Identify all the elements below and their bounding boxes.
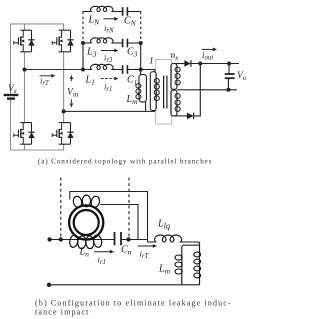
wire: right branch bus (dashed = more branches) <box>140 12 142 44</box>
svg-text:irT: irT <box>140 249 150 260</box>
svg-text:ir3: ir3 <box>104 53 113 64</box>
dashed flux line left <box>60 178 62 238</box>
node: input terminal top <box>47 237 51 241</box>
wire: bottom return (tank bottom) <box>64 110 155 112</box>
current arrow irN <box>104 18 116 20</box>
wire: top winding inner return <box>100 205 138 240</box>
current arrow ir1 <box>101 78 114 80</box>
transistor Q3 (bottom-left MOSFET with body diode) <box>20 122 31 124</box>
toroidal core (transformer core ring) <box>69 205 103 239</box>
transistor Q4 (bottom-right MOSFET with body diode) <box>59 122 71 124</box>
svg-text:Cn: Cn <box>121 245 132 257</box>
node: dashed flux line terminal <box>59 237 63 241</box>
current arrow irT (fig b) <box>138 245 155 247</box>
svg-text:L1: L1 <box>85 75 95 87</box>
node: input terminal bottom <box>47 283 51 287</box>
svg-text:irN: irN <box>104 23 114 34</box>
wire: tank top to primary <box>141 70 155 72</box>
svg-text:Vo: Vo <box>237 71 247 82</box>
wire: top winding outer loop <box>70 192 148 243</box>
svg-text:irT: irT <box>40 76 50 87</box>
output capacitor <box>228 64 230 74</box>
node: branch bus tap for L1 <box>81 68 85 72</box>
inductor L1 (branch 1) <box>90 69 92 71</box>
wire: input to toroid winding <box>50 239 115 241</box>
svg-text:ir1: ir1 <box>98 255 106 266</box>
wire: right side down <box>199 242 201 285</box>
transformer gray outline box <box>156 60 172 125</box>
transformer secondary top winding <box>171 64 177 90</box>
current label irT with vector arrow <box>40 75 53 77</box>
transformer secondary bottom winding <box>171 90 177 116</box>
node: Cn / flux line junction <box>126 237 130 241</box>
voltage label Vin with up/down arrows <box>70 77 72 81</box>
svg-text:iout: iout <box>202 50 214 61</box>
node: right bus C3 junction <box>139 41 143 45</box>
wire: left branch bus (dashed = more branches) <box>82 12 84 44</box>
leakage inductor Llq <box>148 241 155 243</box>
svg-text:Llq: Llq <box>157 219 170 231</box>
inductor L3 (branch 3) <box>83 42 91 44</box>
transistor Q2 (top-right MOSFET with body diode) <box>59 29 71 31</box>
transistor Q1 (top-left MOSFET with body diode) <box>20 29 31 31</box>
svg-text:ir1: ir1 <box>104 82 112 93</box>
svg-text:L3: L3 <box>86 47 97 59</box>
wire: center tap to output bottom <box>177 89 237 91</box>
wire: left bridge leg <box>24 24 26 30</box>
toroid bottom winding Ln <box>69 234 79 248</box>
node: branch bus tap for L3 <box>81 41 85 45</box>
svg-text:Lm: Lm <box>158 264 171 276</box>
node: output cap bottom <box>226 88 230 92</box>
wire: top secondary to diode D1 <box>174 63 184 65</box>
svg-text:LN: LN <box>88 15 101 27</box>
svg-text:nx: nx <box>171 51 180 62</box>
wire: output top rail <box>191 63 239 65</box>
full-bridge inverter outer frame: left rail wire <box>11 24 64 94</box>
battery Vs <box>4 94 19 96</box>
current arrow ir3 <box>101 50 116 52</box>
wire: bottom secondary to diode D2 <box>174 115 187 117</box>
node: diode outputs join <box>198 62 202 66</box>
magnetizing inductor Lm (fig b solenoid) <box>182 245 200 285</box>
svg-text:Vs: Vs <box>8 84 17 95</box>
svg-text:Ln: Ln <box>79 247 90 259</box>
transformer core bars <box>163 76 165 109</box>
capacitor Cn <box>114 232 116 245</box>
wire: left rail below battery to bottom rail <box>11 100 64 151</box>
svg-text:(b) Configuration to eliminate: (b) Configuration to eliminate leakage i… <box>35 299 232 308</box>
wire: D2 output rising to top rail <box>194 64 201 116</box>
svg-text:Vin: Vin <box>67 88 79 99</box>
magnetizing inductance Lm <box>140 70 142 76</box>
node: right leg to bottom return <box>62 109 66 113</box>
dashed flux line right <box>128 178 130 238</box>
svg-text:(a) Considered topology with p: (a) Considered topology with parallel br… <box>38 158 212 166</box>
node: output cap top <box>227 62 231 66</box>
transformer primary winding (1 turn side) <box>150 72 156 111</box>
svg-text:tance impact: tance impact <box>35 308 89 317</box>
current arrow ir1 (fig b) <box>94 251 111 253</box>
rectifier diode D1 <box>184 60 191 67</box>
svg-text:1: 1 <box>149 57 154 67</box>
rectifier diode D2 <box>187 113 194 120</box>
toroid top winding (shorted auxiliary) <box>72 195 83 208</box>
wire: bridge mid output (tank top) <box>25 69 92 71</box>
svg-text:C3: C3 <box>127 47 138 59</box>
wire: bottom return fig b <box>49 284 200 286</box>
node: right bus C1 junction <box>139 68 143 72</box>
current arrow iout <box>202 48 214 50</box>
node: left leg midpoint <box>23 68 27 72</box>
inductor LN (branch N) <box>83 11 91 13</box>
wire: right bridge leg <box>63 52 65 123</box>
svg-text:CN: CN <box>124 16 137 28</box>
